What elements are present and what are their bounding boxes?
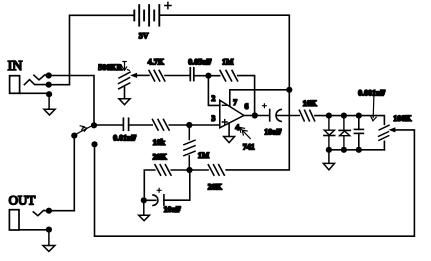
bypass node B junction bbox=[71, 133, 77, 139]
junction cap gnd node bbox=[141, 197, 147, 203]
junction pin2 node bbox=[205, 73, 211, 79]
ground IN jack bbox=[44, 94, 55, 115]
junction diode rail 2 bbox=[341, 113, 347, 119]
svg-text:3: 3 bbox=[211, 114, 215, 123]
op-amp minus mark bbox=[222, 104, 226, 106]
svg-text:500KR: 500KR bbox=[98, 63, 122, 72]
IN jack tip contact bbox=[34, 75, 48, 80]
svg-text:1M: 1M bbox=[198, 151, 210, 160]
svg-text:4: 4 bbox=[235, 123, 239, 132]
OUT jack tip contact bbox=[33, 210, 46, 215]
resistor 1M feedback bbox=[220, 70, 238, 81]
diode D1 bbox=[324, 116, 335, 150]
junction output node bbox=[252, 112, 258, 118]
arrow from 500KR label to pot bbox=[122, 62, 129, 71]
diode D2 bbox=[339, 116, 350, 150]
bypass node C junction bbox=[91, 141, 97, 147]
wire 10k to pin3 bbox=[169, 124, 219, 126]
bypass switch arrow bbox=[77, 126, 91, 134]
svg-text:3V: 3V bbox=[139, 32, 149, 41]
resistor 10K bbox=[299, 110, 314, 121]
junction IN ring bbox=[46, 82, 52, 88]
IN jack J1 body bbox=[10, 76, 20, 94]
op-amp U1 741 triangle bbox=[220, 100, 244, 128]
op-amp plus mark bbox=[222, 120, 227, 125]
capacitor 0.001uF bbox=[354, 116, 363, 150]
svg-text:0.05uF: 0.05uF bbox=[188, 58, 211, 67]
svg-text:7: 7 bbox=[233, 98, 237, 107]
junction bottom rail 2 bbox=[341, 147, 347, 153]
capacitor 0.01uF bbox=[123, 118, 128, 130]
junction bottom rail 3 bbox=[356, 147, 362, 153]
junction OUT sleeve bbox=[46, 227, 52, 233]
wire pot wiper to bottom rail to node C bbox=[95, 130, 415, 236]
wire 0.05uF to node pin2 and 1M bbox=[194, 75, 220, 77]
wire 4.7K to 0.05uF bbox=[165, 75, 190, 77]
svg-text:0.01uF: 0.01uF bbox=[113, 134, 136, 143]
IN jack ring contact bbox=[24, 80, 46, 85]
capacitor 10uF output bbox=[270, 109, 282, 121]
ground pot 500K bbox=[119, 99, 130, 105]
svg-text:IN: IN bbox=[8, 59, 23, 74]
potentiometer 100K body bbox=[379, 125, 389, 150]
pot 100K wiper arrow bbox=[390, 128, 395, 132]
ground OUT jack bbox=[43, 230, 55, 252]
svg-text:1M: 1M bbox=[222, 58, 234, 67]
capacitor 10uF output plus mark bbox=[263, 104, 267, 108]
capacitor 10uF bias plus mark bbox=[157, 188, 161, 192]
capacitor 0.05uF bbox=[190, 68, 194, 81]
wire 1M to output node bbox=[238, 76, 255, 116]
arrow 0.001uF label to capacitor bbox=[371, 95, 376, 120]
svg-text:10k: 10k bbox=[153, 138, 166, 147]
OUT jack J2 body bbox=[9, 210, 19, 230]
svg-text:10K: 10K bbox=[303, 99, 318, 108]
wire pin2 node down to op-amp pin 2 bbox=[208, 76, 219, 106]
junction bias node bbox=[186, 167, 192, 173]
wire pin7 rail to battery rail bbox=[230, 89, 289, 91]
wire node A to 0.01uF bbox=[94, 124, 123, 126]
wire battery negative to IN jack ring bbox=[52, 15, 135, 84]
junction pin3 node bbox=[186, 122, 192, 128]
resistor 20K left bbox=[155, 165, 171, 176]
IN jack sleeve contact bbox=[20, 92, 47, 94]
ground bias cap bbox=[139, 200, 150, 220]
741 label arrow bbox=[240, 127, 251, 138]
wire bias node to 20K right bbox=[190, 169, 209, 171]
pot 500K wiper arrow bbox=[132, 74, 149, 78]
resistor 4.7K bbox=[149, 70, 165, 81]
pin 4 stem bbox=[228, 123, 230, 136]
junction battery rail node bbox=[286, 87, 292, 93]
wire 20K left to cap gnd node bbox=[144, 170, 155, 200]
junction IN tip bbox=[46, 72, 52, 78]
resistor 10k input bbox=[153, 120, 170, 131]
battery plus label bbox=[165, 2, 171, 8]
junction IN sleeve bbox=[46, 91, 52, 97]
wire IN tip to bypass node A bbox=[49, 76, 94, 126]
wire 20K left to bias node bbox=[171, 169, 189, 171]
junction bottom rail 1 bbox=[326, 147, 332, 153]
svg-text:741: 741 bbox=[243, 143, 255, 152]
svg-text:10uF: 10uF bbox=[164, 205, 181, 214]
junction diode rail 1 bbox=[326, 113, 332, 119]
wire op-amp output bbox=[244, 115, 270, 117]
svg-text:20K: 20K bbox=[153, 153, 168, 162]
svg-text:0.001uF: 0.001uF bbox=[358, 89, 385, 98]
svg-text:2: 2 bbox=[211, 94, 215, 103]
svg-text:10uF: 10uF bbox=[264, 127, 281, 136]
OUT jack sleeve contact bbox=[19, 229, 46, 231]
svg-text:100K: 100K bbox=[393, 114, 412, 123]
svg-text:OUT: OUT bbox=[9, 192, 36, 207]
ground diode network bbox=[323, 150, 334, 170]
bypass node A junction bbox=[91, 122, 97, 128]
junction diode rail 3 bbox=[356, 113, 362, 119]
wire battery positive rail down right side to bias resistor bbox=[160, 15, 290, 170]
wire diode network bottom rail bbox=[329, 149, 385, 151]
wire 10K to diode network and pot bbox=[315, 116, 385, 125]
resistor 20K right bbox=[208, 165, 224, 176]
wire node B down to OUT jack tip bbox=[49, 136, 74, 211]
capacitor 10uF bias bbox=[144, 195, 164, 206]
junction OUT tip bbox=[46, 208, 52, 214]
svg-text:20K: 20K bbox=[208, 182, 223, 191]
ground op-amp pin4 bbox=[224, 137, 235, 143]
wire 10uF bias to bias node bbox=[164, 170, 190, 200]
resistor 10k vertical bias bbox=[184, 125, 195, 170]
wire 0.01uF to 10k resistor bbox=[129, 124, 152, 126]
battery B1 3V bbox=[134, 5, 159, 26]
potentiometer 500K body bbox=[119, 72, 131, 98]
pin 7 stem bbox=[229, 90, 231, 106]
svg-text:6: 6 bbox=[245, 102, 249, 111]
wire 10uF to 10K resistor bbox=[277, 115, 299, 117]
svg-text:4.7K: 4.7K bbox=[148, 58, 165, 67]
